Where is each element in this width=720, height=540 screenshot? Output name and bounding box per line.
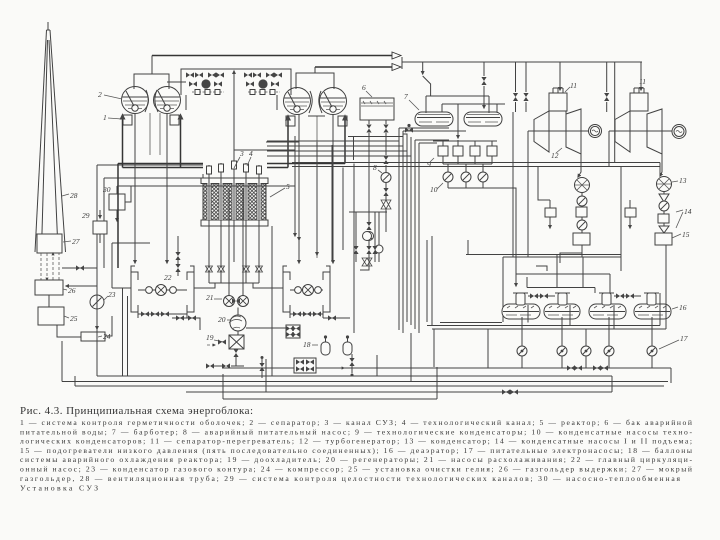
- svg-text:21: 21: [206, 293, 214, 302]
- dump valves left cluster: [186, 72, 224, 94]
- fuel channels 3/4: [209, 183, 259, 220]
- channel integrity control system 29: [82, 211, 107, 234]
- center riser to dump station: [233, 71, 235, 178]
- regenerator 20: [218, 308, 246, 336]
- station inner drop wires: [186, 95, 277, 110]
- svg-text:19: 19: [206, 333, 214, 342]
- svg-text:11: 11: [570, 81, 577, 90]
- valves below 19: [206, 363, 244, 368]
- svg-text:15 — подогреватели низкого д: 15 — подогреватели низкого давления (пят…: [20, 446, 692, 455]
- main steam header lower: [315, 64, 401, 71]
- bottom manifolds: [62, 268, 671, 399]
- condensate train 1: [573, 193, 590, 258]
- label 2: [98, 90, 122, 99]
- leak-control box 1 left-B: [170, 115, 179, 125]
- reactor drain valves: [206, 266, 263, 272]
- main steam header upper: [152, 52, 401, 59]
- crossover valve block: [294, 358, 316, 373]
- steam header above right separators: [296, 73, 334, 113]
- svg-text:2: 2: [98, 90, 102, 99]
- feed manifold valves: [567, 365, 608, 370]
- emergency feedwater tank 6: [360, 83, 394, 120]
- gas circuit wires: [49, 165, 203, 345]
- svg-text:14: 14: [684, 207, 692, 216]
- svg-text:18: 18: [303, 340, 311, 349]
- svg-text:логических конденсаторов; 11: логических конденсаторов; 11 — сепаратор…: [20, 437, 692, 446]
- center aux valves: [259, 354, 354, 378]
- separator drum 2 right-B: [320, 88, 347, 115]
- pump suction/discharge verticals: [522, 317, 652, 368]
- svg-text:1: 1: [103, 113, 107, 122]
- compressor 24: [81, 332, 111, 341]
- labels 3 4: [234, 149, 253, 168]
- SUZ pump-exchanger unit 30: [102, 185, 125, 210]
- deaerator tank 16 d: [634, 293, 687, 319]
- ECCS valves under downcomers: [175, 236, 180, 276]
- wires of 29/30: [100, 186, 131, 243]
- cooldown pumps 21: [229, 188, 243, 296]
- svg-text:27: 27: [72, 237, 80, 246]
- leak-control box 1 right-B: [338, 116, 347, 126]
- drops to SPP unit2: [604, 62, 615, 140]
- delay gasholder 26: [35, 280, 76, 295]
- dashed ducts below stack: [41, 253, 59, 280]
- drop to turbine 2: [640, 62, 642, 90]
- deaerator tank 16 b: [544, 293, 580, 319]
- steam distribution line to turbines: [402, 57, 642, 69]
- condenser 7 piping: [426, 96, 505, 141]
- generator 2: [672, 125, 686, 139]
- condenser 13 of turbine1: [575, 154, 590, 193]
- left loop valves row: [138, 305, 200, 330]
- aux chain under reactor: [349, 212, 387, 266]
- svg-text:газгольдер, 28 — вентиляционн: газгольдер, 28 — вентиляционная труба; 2…: [20, 474, 680, 483]
- ECCS gas bottles 18: [303, 335, 352, 355]
- main circulation pump 22 left: [138, 273, 187, 296]
- label 28: [62, 191, 78, 200]
- svg-text:онный насос; 23 — конденсатор: онный насос; 23 — конденсатор газового к…: [20, 465, 692, 474]
- generator 1: [589, 125, 602, 138]
- dump valves right cluster: [244, 72, 282, 94]
- crossover valve block upper: [246, 325, 300, 338]
- bubbler condensers 7: [404, 92, 453, 126]
- SUZ cooling top lines: [117, 136, 299, 202]
- condenser 13 of turbine2: [657, 154, 687, 192]
- svg-text:12: 12: [551, 151, 559, 160]
- svg-text:23: 23: [108, 290, 116, 299]
- drop with relief valve: [481, 62, 486, 108]
- header risers from separators: [152, 56, 315, 75]
- wet gasholder 27: [37, 234, 80, 253]
- reactor 5 core: [201, 178, 290, 226]
- separator drum 2 left-B: [154, 87, 181, 114]
- channel caps: [207, 161, 262, 174]
- steam header above left separators: [134, 74, 169, 112]
- svg-text:6: 6: [362, 83, 366, 92]
- helium purification unit 25: [38, 307, 78, 325]
- turbine 2 SPP box 11b: [630, 77, 648, 111]
- svg-text:26: 26: [68, 286, 76, 295]
- LP heater boxes 2: [625, 200, 636, 228]
- svg-text:22: 22: [164, 273, 172, 282]
- feed pumps 17: [517, 334, 688, 356]
- svg-text:8: 8: [373, 163, 377, 172]
- svg-text:системы аварийного охлаждени: системы аварийного охлаждения реактора; …: [20, 455, 692, 464]
- svg-text:11: 11: [639, 77, 646, 86]
- separator drum 2 right-A: [284, 88, 311, 115]
- deaerator supply headers: [427, 293, 666, 329]
- gas-circuit condenser 23: [90, 290, 116, 309]
- turbine 1 SPP box 11: [549, 81, 577, 111]
- svg-text:7: 7: [404, 92, 408, 101]
- turbine 1 body 12: [528, 93, 589, 160]
- LP heater boxes: [545, 200, 556, 228]
- emergency feed pump 8: [373, 156, 391, 232]
- downcomer left feed lines: [135, 113, 167, 263]
- condensate pumps 10: [430, 164, 516, 286]
- svg-text:15: 15: [682, 230, 690, 239]
- valves on lower manifold: [502, 389, 518, 394]
- ventilation stack 28 outline: [35, 22, 66, 252]
- heater drain piping to deaerators: [466, 240, 621, 293]
- tank 6 outlet valves: [366, 120, 388, 155]
- bubbler condenser 7b: [464, 112, 502, 126]
- drop to bubbler: [423, 62, 431, 96]
- svg-text:Рис. 4.3. Принципиальная схема: Рис. 4.3. Принципиальная схема энергобло…: [20, 405, 253, 417]
- containment boundary lines: [267, 128, 466, 333]
- condensate train 2 with pumps 14 and heater 15: [655, 192, 692, 291]
- turbine 2 body: [609, 93, 672, 154]
- svg-text:Установка СУЗ: Установка СУЗ: [20, 484, 98, 493]
- drop to turbine 1: [559, 62, 561, 90]
- svg-text:28: 28: [70, 191, 78, 200]
- MCP group left header bars: [131, 266, 194, 312]
- valve on gas line: [76, 265, 84, 270]
- riser bundle right: [267, 116, 345, 168]
- svg-text:25: 25: [70, 314, 78, 323]
- svg-text:17: 17: [680, 334, 688, 343]
- svg-text:29: 29: [82, 211, 90, 220]
- right loop valves row: [290, 305, 350, 321]
- CAPTION: [20, 405, 692, 493]
- technological condensers 9: [427, 146, 497, 169]
- relief glyph near condenser 7: [405, 124, 413, 133]
- deaerator tank 16 a: [502, 293, 540, 319]
- downcomer right feed lines: [299, 115, 333, 264]
- svg-text:1 — система контроля герметичн: 1 — система контроля герметичности оболо…: [20, 418, 692, 427]
- leak-control box 1 left: [103, 113, 132, 125]
- condensate to deaerator lines: [560, 253, 666, 293]
- cond 9 header: [433, 141, 497, 164]
- svg-text:16: 16: [679, 303, 687, 312]
- svg-text:13: 13: [679, 176, 687, 185]
- leak-control box 1 right: [286, 116, 295, 126]
- svg-text:питательной воды; 7 — барбот: питательной воды; 7 — барботер; 8 — авар…: [20, 427, 692, 436]
- main circulation pump 22 right: [290, 285, 323, 296]
- reactor drain lines: [194, 136, 343, 376]
- svg-text:20: 20: [218, 315, 226, 324]
- steam dump station frame: [167, 69, 291, 95]
- svg-text:10: 10: [430, 185, 438, 194]
- drops to SPP unit1: [513, 62, 529, 112]
- MCP group right header bars: [283, 266, 330, 312]
- deaerator tank 16 c: [589, 293, 626, 319]
- ECCS injection train: [360, 150, 383, 270]
- left loop suction drop: [112, 288, 131, 376]
- svg-text:30: 30: [102, 185, 111, 194]
- aftercooler 19: [206, 333, 244, 366]
- separator drum 2 left-A: [122, 87, 149, 114]
- riser bundle left: [118, 115, 203, 268]
- extraction headers: [292, 112, 660, 322]
- deaerator interconnect valves: [528, 293, 641, 298]
